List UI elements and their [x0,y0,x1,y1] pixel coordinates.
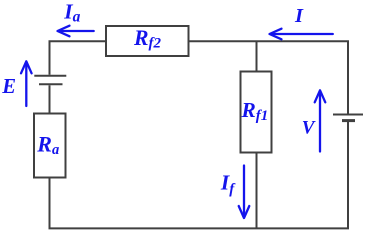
current arrow I (points left) [270,29,333,40]
wire: Rf2 right terminal to top-right corner, down to battery V [189,41,349,113]
wire: Rf2 left terminal to top-left corner, down to battery E [50,41,107,75]
wire: battery V to bottom-right corner [347,122,349,229]
current arrow If (points down) [239,166,250,219]
resistor Rf2 box [106,26,189,56]
wire: Ra to bottom-left corner [49,178,51,229]
wire: bottom rail [49,227,350,229]
resistor Ra box [34,114,66,178]
svg-text:Ia: Ia [63,0,80,26]
svg-text:Rf2: Rf2 [133,26,162,52]
svg-text:Ra: Ra [36,131,59,158]
svg-text:E: E [1,76,16,98]
svg-text:I: I [294,5,304,27]
svg-text:If: If [220,170,236,197]
svg-text:V: V [302,118,316,139]
current arrow Ia (points left) [58,26,94,37]
wire: junction on top rail down to Rf1 [256,41,258,71]
wire: Rf1 to bottom rail [256,153,258,229]
battery V cell [333,115,363,121]
voltage arrow V (points up) [315,90,326,151]
svg-text:Rf1: Rf1 [241,98,269,124]
voltage arrow E (points up) [21,61,32,106]
wire: battery E to resistor Ra [49,85,51,113]
resistor Rf1 box [241,72,272,153]
battery E cell [34,76,66,85]
